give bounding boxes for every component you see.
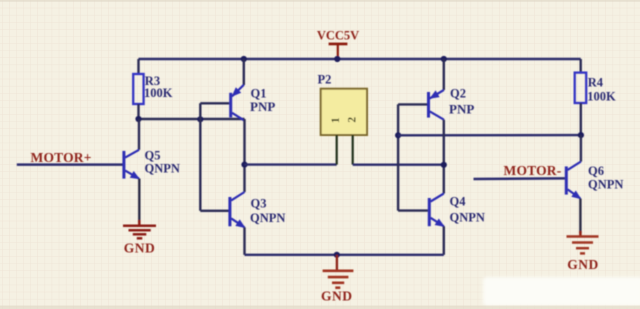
svg-text:QNPN: QNPN bbox=[450, 211, 485, 225]
wire left output node to P2 pin1 bbox=[245, 163, 337, 165]
node A horizontal wire (R3 / Q5 collector / Q1 bases node) bbox=[139, 118, 245, 120]
svg-text:Q3: Q3 bbox=[251, 197, 267, 211]
MOTOR+ wire to Q5 base bbox=[17, 163, 123, 166]
MOTOR- wire to Q6 base bbox=[474, 177, 565, 180]
transistor Q4 (NPN) bbox=[429, 194, 445, 227]
junction dot node B bbox=[578, 132, 584, 138]
right collector column wire (Q2 to Q4) bbox=[443, 120, 445, 194]
resistor R3 bbox=[133, 74, 143, 104]
transistor Q6 (NPN) bbox=[566, 162, 581, 200]
transistor Q3 (NPN) bbox=[230, 192, 246, 228]
svg-text:GND: GND bbox=[124, 241, 156, 256]
cross wire to R4 node bbox=[398, 134, 581, 137]
P2 pin 1 wire bbox=[336, 135, 338, 165]
svg-text:Q6: Q6 bbox=[588, 164, 604, 178]
wire Q3 emitter down bbox=[243, 227, 245, 255]
wire R3 bottom to node A bbox=[137, 104, 139, 119]
wire Q1 emitter to rail bbox=[243, 59, 245, 85]
svg-text:QNPN: QNPN bbox=[250, 211, 285, 225]
Q2 base wire bbox=[398, 103, 427, 105]
svg-text:GND: GND bbox=[567, 257, 599, 272]
junction dot base column / cross wire bbox=[395, 132, 401, 138]
junction dot right output node bbox=[441, 162, 447, 168]
svg-text:MOTOR-: MOTOR- bbox=[504, 163, 562, 178]
left collector column wire (Q1 collector to Q3 collector) bbox=[243, 119, 245, 192]
svg-text:100K: 100K bbox=[587, 90, 616, 104]
wire R4 bottom to node B bbox=[580, 103, 582, 135]
wire Q5 emitter to GND bbox=[138, 179, 140, 223]
wire Q4 emitter down bbox=[443, 226, 445, 255]
resistor R4 bbox=[575, 73, 587, 103]
power port VCC5V bar symbol bbox=[329, 43, 348, 59]
svg-text:MOTOR+: MOTOR+ bbox=[31, 150, 92, 165]
svg-text:2: 2 bbox=[346, 117, 358, 123]
svg-text:PNP: PNP bbox=[250, 99, 275, 114]
svg-text:GND: GND bbox=[321, 288, 353, 303]
wire node B down to Q6 collector bbox=[580, 135, 582, 162]
junction dot node A at base column bbox=[197, 116, 203, 122]
svg-text:Q4: Q4 bbox=[450, 195, 467, 209]
svg-text:VCC5V: VCC5V bbox=[317, 29, 359, 43]
Q4 base wire bbox=[398, 209, 428, 211]
transistor Q1 (PNP) bbox=[231, 85, 245, 121]
svg-text:Q5: Q5 bbox=[145, 149, 161, 163]
photo edge shading top bbox=[0, 0, 640, 2]
Q3 base wire bbox=[200, 210, 228, 212]
svg-text:R4: R4 bbox=[588, 76, 604, 90]
VCC5V power rail wire bbox=[139, 58, 581, 60]
wire rail to R3 top bbox=[137, 59, 139, 75]
junction dot ground bus bbox=[334, 252, 340, 258]
ground GND (right, under Q6) bbox=[567, 231, 599, 253]
white patch bottom right bbox=[483, 277, 640, 306]
ground GND (center) bbox=[323, 255, 354, 288]
wire node A down to Q5 collector bbox=[138, 119, 140, 150]
wire Q2 emitter to rail bbox=[443, 59, 445, 90]
ground GND (left, under Q5) bbox=[123, 220, 156, 238]
wire Q6 emitter to GND bbox=[579, 199, 581, 234]
svg-text:QNPN: QNPN bbox=[588, 178, 623, 192]
wire rail to R4 top bbox=[580, 59, 582, 74]
bottom ground bus wire bbox=[245, 254, 444, 256]
svg-text:Q2: Q2 bbox=[450, 87, 466, 101]
wire P2 pin2 to right output node bbox=[353, 163, 444, 165]
svg-text:1: 1 bbox=[330, 117, 342, 123]
Q2/Q4 base column wire bbox=[397, 104, 399, 210]
junction dot left output node bbox=[241, 162, 247, 168]
svg-text:QNPN: QNPN bbox=[145, 162, 180, 176]
svg-text:PNP: PNP bbox=[449, 101, 474, 116]
header P2 body bbox=[321, 89, 367, 135]
junction dot rail / Q1 emitter bbox=[241, 56, 247, 62]
svg-text:100K: 100K bbox=[144, 86, 173, 100]
transistor Q2 (PNP) bbox=[429, 90, 444, 120]
junction dot at VCC rail / power stem bbox=[334, 56, 340, 62]
svg-text:P2: P2 bbox=[318, 73, 332, 87]
photo edge shading bottom bbox=[0, 306, 640, 309]
Q1 base wire bbox=[200, 102, 229, 104]
Q1/Q3 base column wire bbox=[199, 103, 201, 211]
P2 pin 2 wire bbox=[352, 135, 354, 165]
transistor Q5 (NPN) bbox=[124, 150, 140, 179]
junction dot rail / Q2 emitter bbox=[441, 56, 447, 62]
junction dot node A at R3 bbox=[135, 116, 141, 122]
